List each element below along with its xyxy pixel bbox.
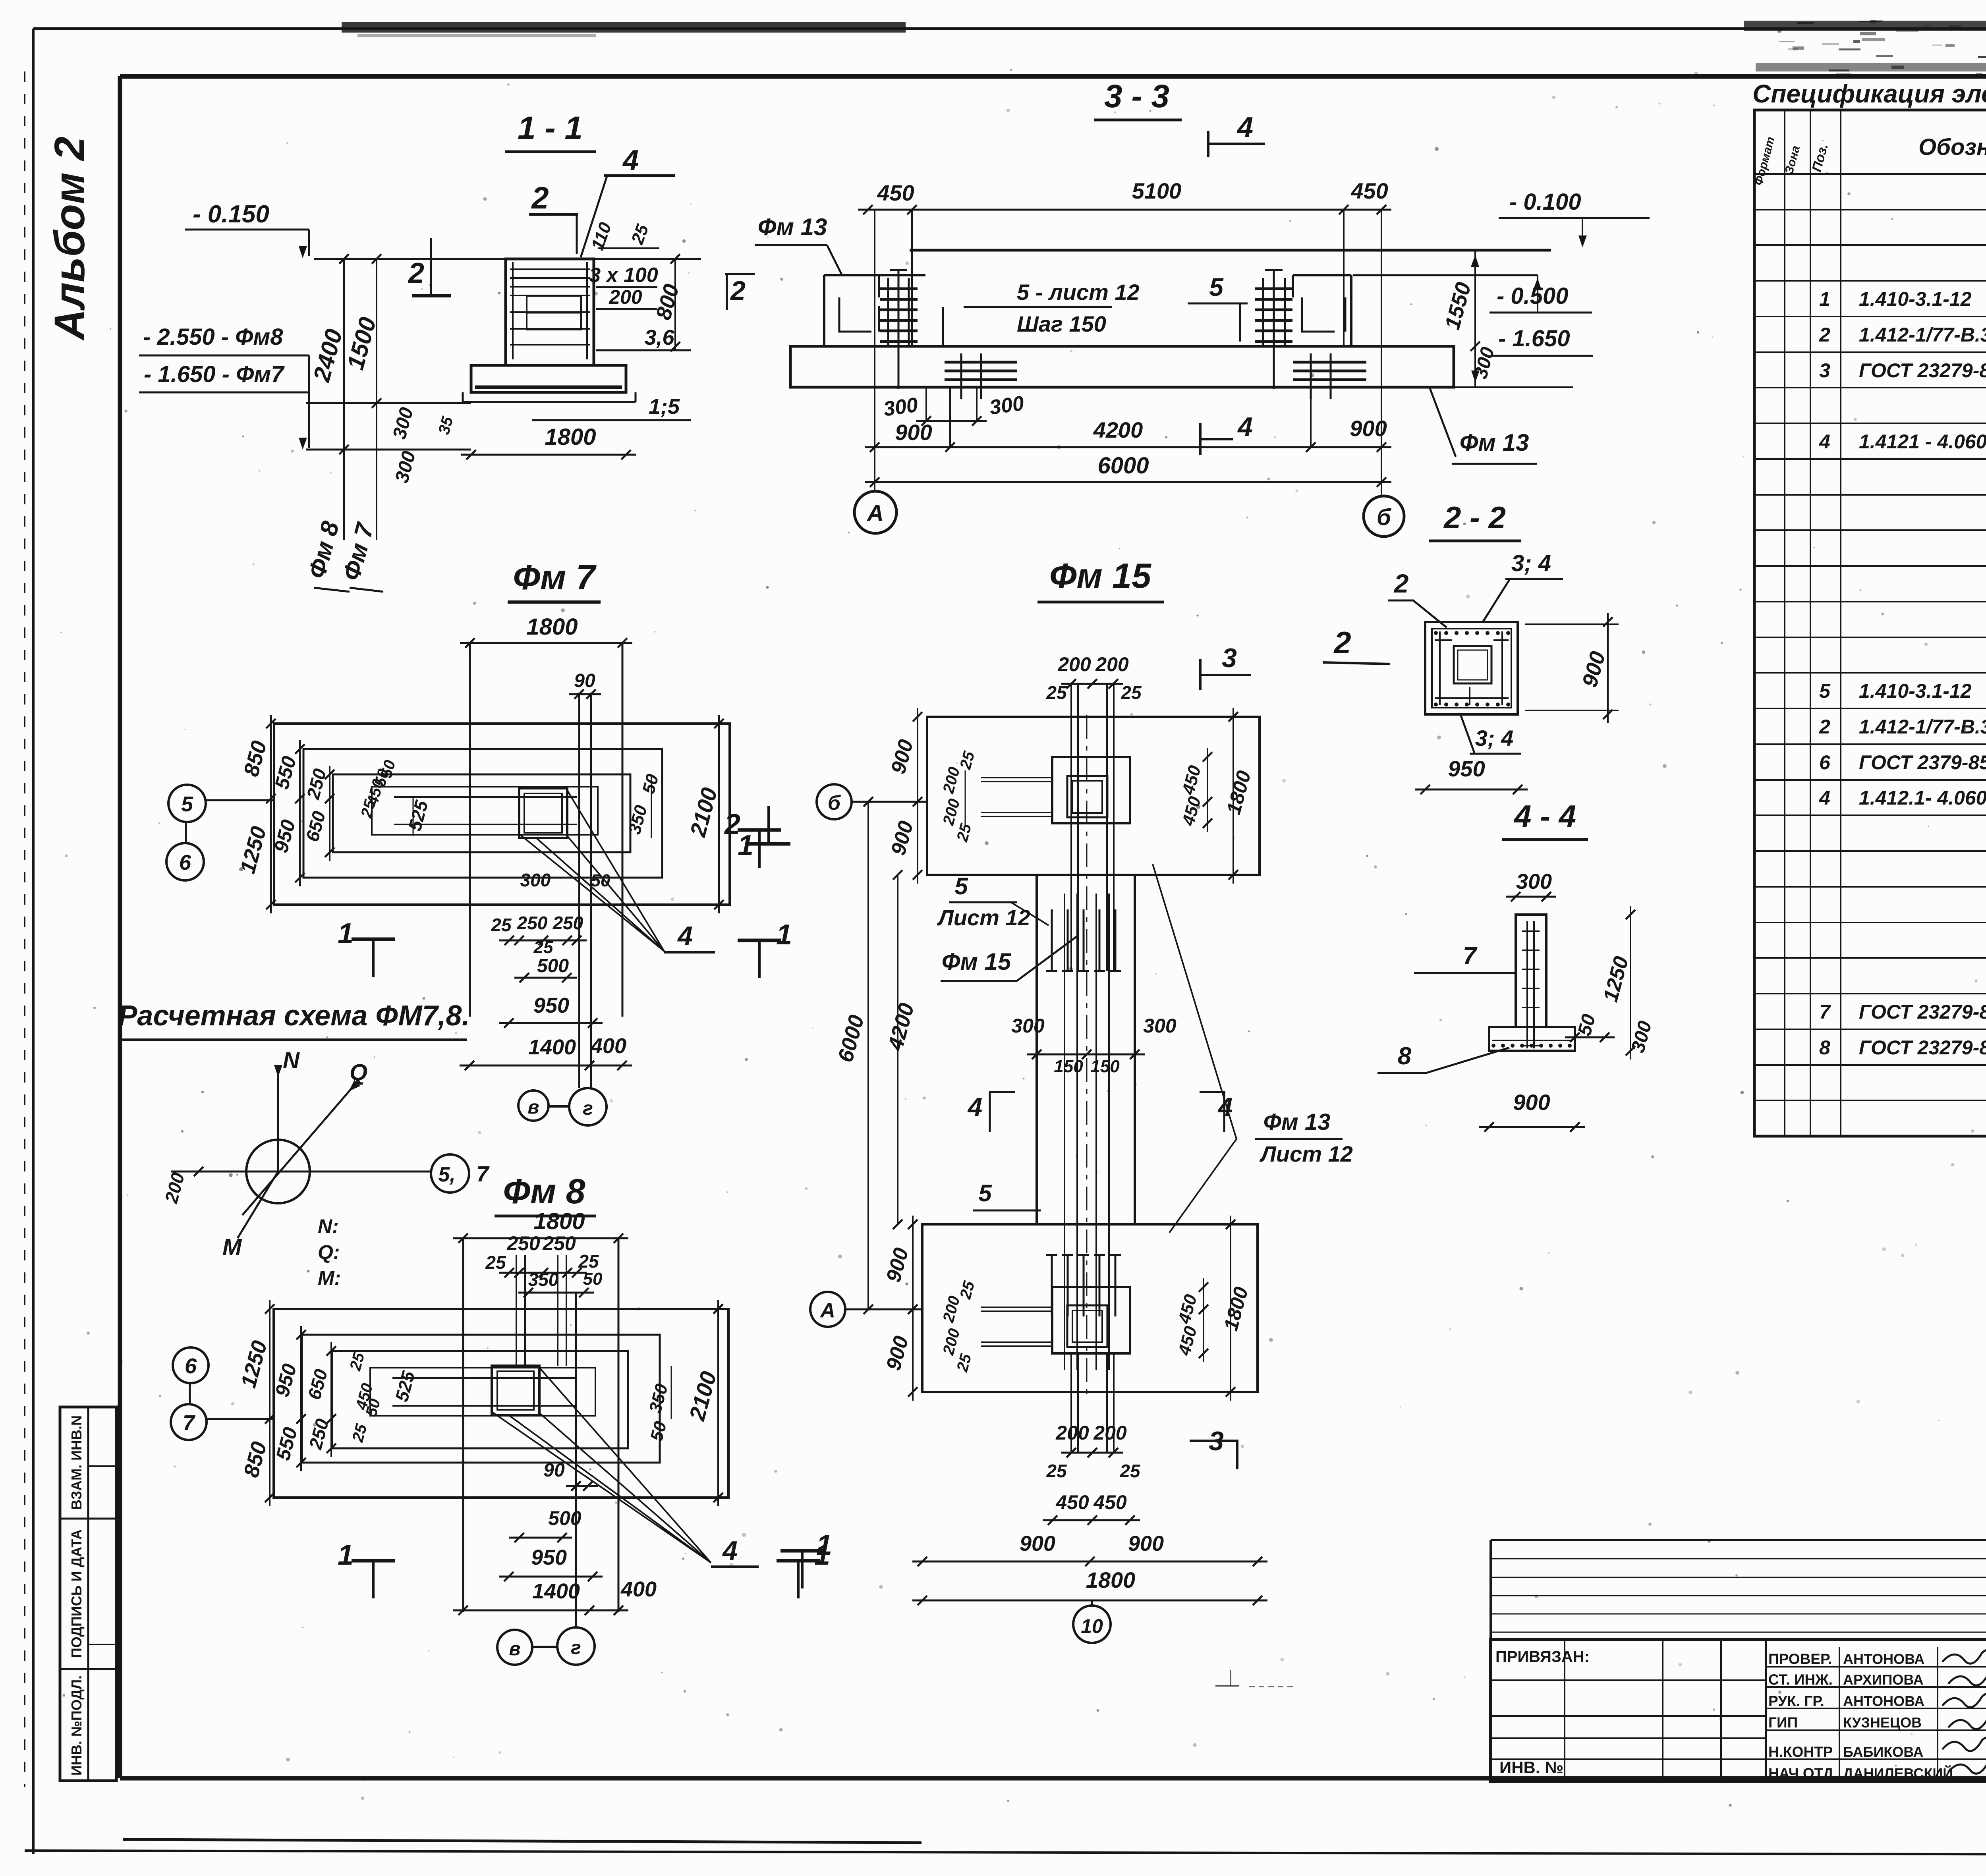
FM15 top pad left chain <box>917 708 918 884</box>
svg-text:ПРИВЯЗАН:: ПРИВЯЗАН: <box>1495 1648 1590 1666</box>
svg-text:РУК. ГР.: РУК. ГР. <box>1768 1693 1824 1709</box>
FM15 pocket dowel stubs left <box>981 777 1052 778</box>
FM8 marker 1 left <box>352 1559 395 1563</box>
title block left attachment grid <box>1491 1679 1766 1681</box>
svg-text:ИНВ. №: ИНВ. № <box>1499 1758 1563 1777</box>
svg-text:1.410-3.1-12: 1.410-3.1-12 <box>1859 288 1972 310</box>
svg-text:4: 4 <box>1819 430 1830 453</box>
pedestal rebar cage <box>512 262 514 359</box>
svg-text:Зона: Зона <box>1783 144 1803 175</box>
pedestal 1-1 <box>506 259 594 365</box>
FM7 right dim 2100 <box>718 715 720 913</box>
svg-text:АНТОНОВА: АНТОНОВА <box>1843 1651 1924 1667</box>
FM8 axis line to circles <box>207 1418 274 1420</box>
spec table vertical lines <box>1784 110 1785 1136</box>
svg-text:ПРОВЕР.: ПРОВЕР. <box>1768 1651 1832 1667</box>
FM15 axis circle A <box>810 1292 845 1327</box>
footing 1-1 <box>471 365 626 392</box>
embedded item dashed box <box>527 296 581 330</box>
svg-text:7: 7 <box>1819 1001 1831 1023</box>
FM15 wall axis dashdot <box>1086 715 1088 1394</box>
svg-text:ГИП: ГИП <box>1768 1714 1798 1731</box>
frame bottom extra line left <box>123 1839 922 1843</box>
FM7 leader lines to 4 <box>567 790 664 951</box>
FM8 inner wall rect <box>370 1368 595 1416</box>
axis line B 3-3 <box>1381 210 1382 496</box>
FM15 top pocket <box>1052 757 1130 823</box>
svg-text:КУЗНЕЦОВ: КУЗНЕЦОВ <box>1843 1714 1922 1731</box>
FM15 chain 6000 <box>867 802 869 1309</box>
FM7 nested rect 2 <box>333 774 630 852</box>
FM15 chain 4200 <box>897 875 898 1224</box>
FM8 axis circle 7 <box>171 1404 207 1440</box>
FM7 chain 250 650 <box>329 766 330 861</box>
svg-text:Поз.: Поз. <box>1809 142 1831 173</box>
outer page border <box>33 27 1986 30</box>
4-4 T section stem <box>1516 915 1546 1027</box>
FM15 bottom right dims 450 450 1800 <box>1203 1278 1204 1362</box>
svg-text:ГОСТ 2379-85: ГОСТ 2379-85 <box>1859 751 1986 774</box>
dim extension verticals 3-3 <box>911 210 913 346</box>
svg-text:АНТОНОВА: АНТОНОВА <box>1843 1693 1924 1709</box>
slab rebar hatch left <box>945 361 1017 364</box>
dim 800 rotated <box>674 259 676 349</box>
FM7 nested rect 1 <box>303 749 662 878</box>
axis circle A 3-3 <box>854 491 896 533</box>
FM8 pedestal <box>492 1366 539 1415</box>
right dims 1550 300 3-3 <box>1474 250 1476 387</box>
svg-text:НАЧ.ОТД: НАЧ.ОТД <box>1768 1765 1833 1781</box>
4-4 flange mesh dots <box>1491 1044 1495 1048</box>
svg-text:8: 8 <box>1819 1036 1830 1059</box>
FM8 wall vertical lines <box>462 1238 464 1612</box>
FM15 bottom pocket dowel stubs <box>981 1307 1052 1308</box>
footing slab 3-3 <box>790 346 1454 387</box>
svg-text:5: 5 <box>1819 680 1831 702</box>
title block outer <box>1491 1639 1986 1781</box>
2-2 rebar dots <box>1434 703 1438 706</box>
FM15 bottom pad rect <box>922 1224 1258 1392</box>
FM8 leader lines to 4 <box>539 1368 711 1563</box>
axis circle B 3-3 <box>1364 496 1404 537</box>
svg-text:1: 1 <box>1819 288 1830 310</box>
FM15 top rebar hooks <box>1051 909 1053 971</box>
svg-text:2: 2 <box>1819 324 1830 346</box>
svg-text:ГОСТ 23279-85: ГОСТ 23279-85 <box>1859 359 1986 382</box>
slab rebar hatch right <box>1293 361 1366 364</box>
2-2 square section <box>1425 622 1518 714</box>
svg-text:3: 3 <box>1819 359 1830 382</box>
FM15 wall rebar lines <box>1064 894 1065 1370</box>
pier top extension right <box>1353 274 1538 276</box>
signatures squiggles <box>1942 1650 1986 1774</box>
FM7 axis line to circles <box>206 799 274 801</box>
FM8 chain 950 550 <box>300 1326 302 1471</box>
section 1-1 ground line <box>314 258 701 260</box>
FM15 wall strip <box>1036 875 1038 1224</box>
signature rows <box>1766 1666 1986 1668</box>
FM7 wall vertical lines <box>469 643 471 1017</box>
FM8 nested rect1 <box>302 1335 660 1463</box>
svg-text:Н.КОНТР: Н.КОНТР <box>1768 1744 1833 1760</box>
svg-text:АРХИПОВА: АРХИПОВА <box>1843 1671 1924 1688</box>
svg-text:1.412.1- 4.060: 1.412.1- 4.060 <box>1859 787 1986 809</box>
main drawing frame <box>120 74 1986 79</box>
FM8 plan outer rect <box>274 1309 728 1498</box>
FM7 left chain 850 1250 <box>270 715 272 913</box>
FM7 inner wall rect <box>372 787 598 835</box>
FM8 chain 650 250 <box>330 1342 332 1457</box>
2-2 dim 900 <box>1525 623 1619 625</box>
svg-text:2: 2 <box>1819 716 1830 738</box>
svg-text:ГОСТ 23279-85: ГОСТ 23279-85 <box>1859 1036 1986 1059</box>
FM8 nested rect2 <box>332 1351 628 1448</box>
FM8 circles V G <box>497 1630 532 1665</box>
svg-text:1.412-1/77-В.3 -020: 1.412-1/77-В.3 -020 <box>1859 716 1986 738</box>
FM15 dowels below <box>1070 1353 1072 1453</box>
4-4 dim 1250 <box>1630 906 1631 1060</box>
FM15 circle 10 <box>1073 1606 1111 1643</box>
svg-text:ДАНИЛЕВСКИЙ: ДАНИЛЕВСКИЙ <box>1843 1765 1953 1781</box>
spec table row lines <box>1754 209 1986 210</box>
2-2 pocket <box>1454 646 1491 683</box>
FM15 marker 1 left top <box>747 842 790 846</box>
FM15 axis circle B <box>817 784 852 819</box>
FM7 plan outer rect <box>274 724 730 905</box>
faint mark bottom middle <box>1215 1685 1239 1687</box>
schema compass circle <box>246 1140 310 1203</box>
FM8 axis circle 6 <box>173 1347 209 1383</box>
schema horizontal line <box>171 1171 431 1173</box>
FM15 bottom pad left chain <box>912 1216 914 1401</box>
left margin strip table <box>60 1407 116 1781</box>
svg-text:1.412-1/77-В.3 - 020: 1.412-1/77-В.3 - 020 <box>1859 324 1986 346</box>
svg-text:Обозначение: Обозначение <box>1918 134 1986 160</box>
left pier pocket dashed <box>839 297 871 332</box>
left rebar cluster 3-3 <box>887 278 889 346</box>
FM15 top pad rect <box>927 717 1260 875</box>
FM15 right dims 450 450 1800 <box>1207 748 1208 832</box>
svg-text:Спецификация элементов монолит: Спецификация элементов монолитных фундам… <box>1752 79 1986 108</box>
schema M axis <box>238 1172 278 1238</box>
svg-text:ГОСТ 23279-85: ГОСТ 23279-85 <box>1859 1001 1986 1023</box>
FM7 circles V G <box>518 1090 549 1121</box>
right pier 3-3 <box>1292 275 1294 297</box>
left pier 3-3 <box>823 275 825 346</box>
blinding layer 1-1 <box>463 401 636 403</box>
svg-text:4: 4 <box>1819 787 1830 809</box>
upper stamp rows left <box>1491 1558 1986 1559</box>
FM7 marker 2 right <box>738 828 781 832</box>
svg-text:СТ. ИНЖ.: СТ. ИНЖ. <box>1768 1671 1833 1688</box>
FM7 marker 1 bottom <box>352 938 395 941</box>
FM15 dowels top <box>1070 684 1072 971</box>
FM15 lower rebar hooks <box>1051 1255 1053 1316</box>
svg-text:1.410-3.1-12: 1.410-3.1-12 <box>1859 680 1972 702</box>
FM15 bottom pocket <box>1052 1287 1130 1353</box>
schema N axis <box>277 1072 279 1172</box>
FM8 right dim 2100 <box>717 1300 719 1506</box>
axis line A 3-3 <box>874 210 875 491</box>
svg-text:6: 6 <box>1819 751 1831 774</box>
FM7 pedestal <box>519 788 567 838</box>
svg-text:1.4121 - 4.060: 1.4121 - 4.060 <box>1859 430 1986 453</box>
beam top line 3-3 <box>910 249 1551 252</box>
right rebar cluster 3-3 <box>1262 278 1264 346</box>
dim chain 1500 <box>376 259 377 540</box>
right pier pocket dashed <box>1302 297 1335 332</box>
FM7 marker T1 bottom right <box>738 939 781 942</box>
4-4 T section flange <box>1489 1027 1575 1051</box>
schema circle 5-7 <box>431 1154 469 1193</box>
FM8 dowel lines top <box>516 1255 517 1366</box>
FM15 marker T1 left bottom <box>780 1549 824 1553</box>
FM8 left chain 1250 850 <box>269 1300 270 1506</box>
left bottom line 1-1 <box>306 449 471 451</box>
spec table header row <box>1754 173 1986 175</box>
FM7 chain 550 950 <box>299 740 301 886</box>
spec table outer frame <box>1754 110 1986 1136</box>
4-4 stem rebar <box>1526 921 1528 1048</box>
FM7 axis circle 6 <box>166 843 204 880</box>
scanner noise band top-left <box>342 22 906 33</box>
svg-text:БАБИКОВА: БАБИКОВА <box>1843 1744 1923 1760</box>
schema Q axis <box>242 1086 354 1215</box>
dim chain 2400 <box>343 259 345 540</box>
FM8 marker T1 right <box>777 1559 820 1563</box>
FM7 axis circle 5 <box>168 785 206 822</box>
scanner noise band top-right <box>1744 21 1986 31</box>
2-2 rebar bars <box>1439 631 1441 705</box>
